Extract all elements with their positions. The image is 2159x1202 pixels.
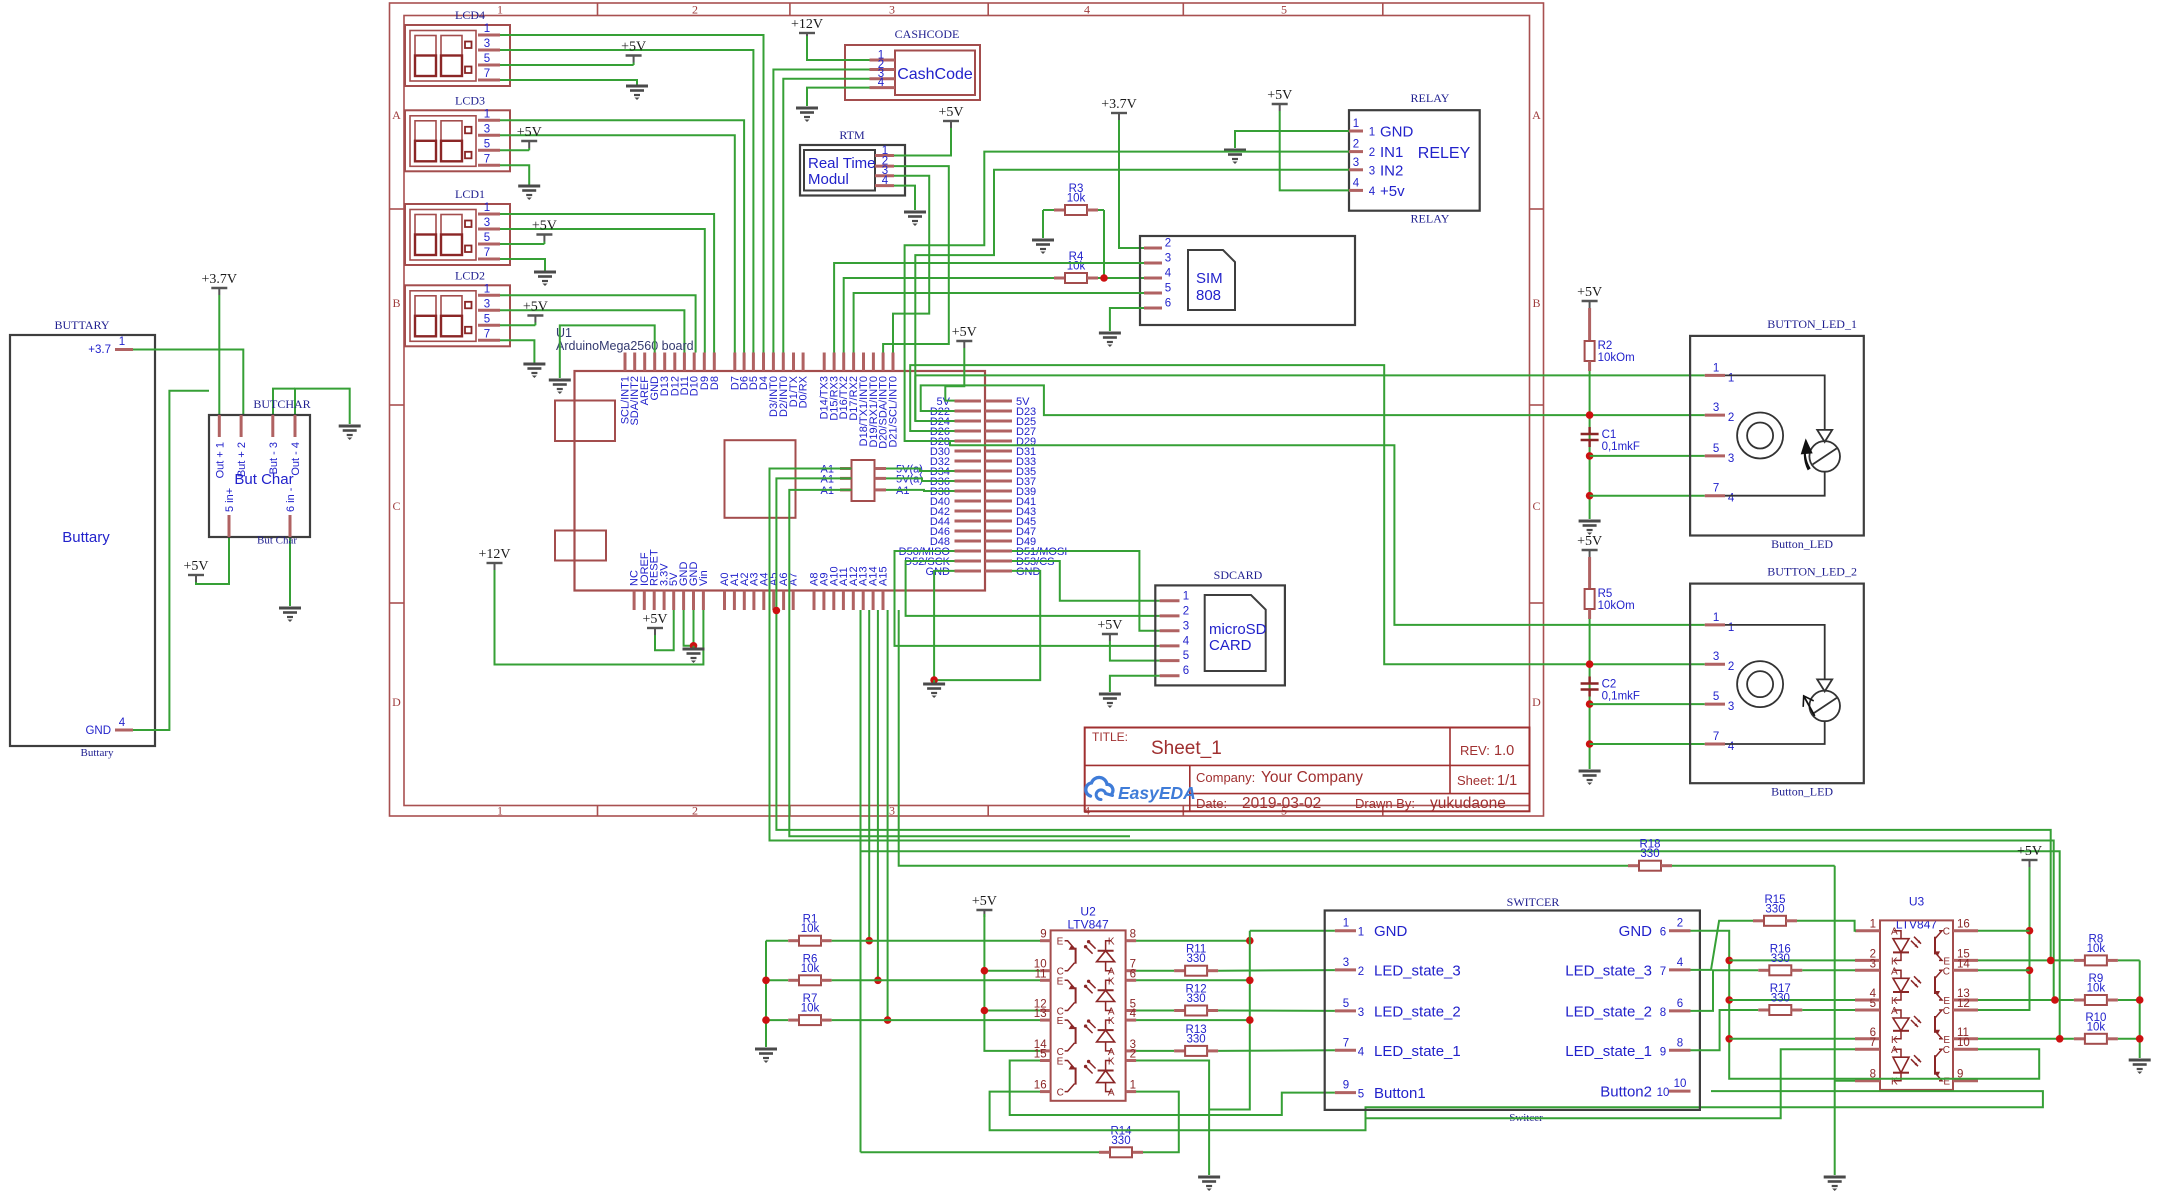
ground U1 bottom bbox=[683, 646, 705, 663]
power +5V LCD3 bbox=[517, 125, 542, 150]
junction R7 left bbox=[762, 1016, 770, 1024]
wire LCD3.5 to +5V bbox=[500, 149, 529, 151]
power +5V U2 bbox=[972, 894, 997, 917]
svg-text:8: 8 bbox=[1677, 1037, 1683, 1049]
svg-text:RTM: RTM bbox=[839, 128, 865, 142]
capacitor C2 0,1mkF bbox=[1581, 677, 1640, 703]
svg-text:IN2: IN2 bbox=[1380, 162, 1403, 179]
capacitor C1 0,1mkF bbox=[1581, 427, 1640, 453]
wire LCD3.1 to D6 bbox=[500, 120, 744, 352]
svg-text:1: 1 bbox=[1353, 118, 1359, 130]
svg-text:E: E bbox=[1057, 1016, 1064, 1027]
svg-text:+5V: +5V bbox=[532, 219, 557, 234]
wire R8/R9/R10 common bbox=[2139, 960, 2141, 1058]
wire U2 pin15 to SWITCER Button1 bbox=[1010, 1061, 1335, 1116]
wire SIM808.5 to D17 bbox=[854, 293, 1144, 353]
junction R6 left bbox=[762, 977, 770, 985]
svg-text:C1: C1 bbox=[1602, 429, 1617, 441]
svg-text:A: A bbox=[1891, 966, 1898, 977]
wire D28 to BUTTON_LED_2 pin1 bbox=[950, 441, 1705, 625]
junction GND pins bbox=[690, 642, 698, 650]
op-amp U3 LTV847 optocoupler bbox=[1855, 895, 1978, 1090]
svg-text:7: 7 bbox=[1870, 1037, 1876, 1049]
wire SDCARD.6 to ground bbox=[1110, 676, 1160, 692]
svg-text:10k: 10k bbox=[2087, 943, 2106, 955]
ground RTM bbox=[904, 212, 926, 226]
svg-text:0,1mkF: 0,1mkF bbox=[1602, 441, 1640, 453]
connector SWITCER bbox=[1325, 895, 1700, 1124]
junction A15/R6 bbox=[874, 977, 882, 985]
svg-text:3: 3 bbox=[1353, 157, 1359, 169]
svg-text:microSD: microSD bbox=[1209, 621, 1267, 638]
svg-text:Button1: Button1 bbox=[1374, 1085, 1426, 1102]
junction U2 pin4 bbox=[1246, 1016, 1254, 1024]
power +5V above RTM bbox=[938, 105, 963, 128]
wire CASHCODE.2 to D3/INT0 bbox=[773, 70, 869, 353]
svg-text:4: 4 bbox=[1728, 741, 1735, 753]
wire +5V branch pin16 bbox=[1978, 930, 2030, 932]
svg-text:1: 1 bbox=[1728, 372, 1734, 384]
svg-text:6: 6 bbox=[1660, 927, 1666, 939]
wire R4 left to D16/TX2 bbox=[844, 278, 1035, 353]
junction R7 row bbox=[884, 1016, 892, 1024]
connector LCD2 bbox=[405, 268, 510, 346]
wire D51/MOSI to SDCARD pin3 bbox=[1012, 551, 1160, 631]
svg-text:4: 4 bbox=[882, 175, 889, 187]
junction R3/R4/SIM.4 bbox=[1100, 274, 1108, 282]
svg-text:2: 2 bbox=[1358, 966, 1364, 978]
resistor R2 10kOm bbox=[1585, 308, 1635, 371]
wire RELAY.1 to ground bbox=[1235, 131, 1349, 148]
svg-text:2: 2 bbox=[1183, 605, 1189, 617]
wire +5V to BUTCHAR in+ bbox=[196, 537, 229, 584]
svg-text:5: 5 bbox=[1343, 998, 1349, 1010]
svg-text:3: 3 bbox=[484, 123, 490, 135]
svg-text:3: 3 bbox=[1713, 402, 1719, 414]
connector LCD3 bbox=[405, 93, 510, 171]
svg-text:+5V: +5V bbox=[952, 325, 977, 340]
svg-text:D: D bbox=[392, 695, 401, 709]
svg-text:12: 12 bbox=[1957, 998, 1970, 1010]
wire D21 net to R7 row bbox=[887, 610, 889, 1020]
svg-text:1: 1 bbox=[1728, 622, 1734, 634]
svg-text:4: 4 bbox=[1369, 186, 1376, 198]
svg-text:+3.7V: +3.7V bbox=[202, 272, 238, 287]
wire R1/R6/R7 common to ground bbox=[765, 941, 767, 1047]
svg-text:0,1mkF: 0,1mkF bbox=[1602, 691, 1640, 703]
ground R3 bbox=[1032, 240, 1054, 254]
svg-text:ArduinoMega2560 board: ArduinoMega2560 board bbox=[556, 339, 694, 353]
svg-text:1: 1 bbox=[497, 804, 503, 818]
ground R5/C2 bbox=[1579, 771, 1601, 785]
wire U2 pin6 bbox=[1136, 979, 1250, 981]
wire RELAY.3 IN2 to D24 bbox=[915, 170, 1349, 421]
connector LCD4 bbox=[405, 8, 510, 86]
connector SDCARD bbox=[1155, 568, 1285, 685]
svg-text:A: A bbox=[1108, 1088, 1115, 1099]
svg-text:2: 2 bbox=[1728, 661, 1734, 673]
svg-text:9: 9 bbox=[1660, 1046, 1666, 1058]
svg-text:GND: GND bbox=[1619, 923, 1653, 940]
svg-text:U2: U2 bbox=[1080, 905, 1096, 919]
svg-text:330: 330 bbox=[1111, 1135, 1130, 1147]
svg-text:Buttary: Buttary bbox=[62, 529, 110, 546]
junction A5 stub bbox=[773, 607, 781, 615]
svg-text:9: 9 bbox=[1343, 1080, 1349, 1092]
svg-text:+5V: +5V bbox=[642, 612, 667, 627]
connector BUTTON_LED_2 Button_LED bbox=[1690, 565, 1864, 799]
svg-text:10k: 10k bbox=[801, 923, 820, 935]
svg-text:IN1: IN1 bbox=[1380, 144, 1403, 161]
svg-text:Vin: Vin bbox=[698, 570, 710, 586]
resistor R7 10k bbox=[766, 993, 1040, 1025]
wire A15 net to R6 row bbox=[877, 610, 879, 980]
svg-text:D8: D8 bbox=[709, 376, 721, 390]
svg-text:4: 4 bbox=[1728, 493, 1735, 505]
resistor R6 10k bbox=[766, 953, 1040, 985]
svg-text:5: 5 bbox=[484, 138, 490, 150]
svg-text:4: 4 bbox=[1677, 957, 1684, 969]
svg-text:A15: A15 bbox=[878, 566, 890, 586]
svg-text:C: C bbox=[1532, 499, 1540, 513]
ground BUTCHAR right bbox=[339, 426, 361, 440]
resistor R3 10k bbox=[1043, 183, 1104, 215]
svg-text:CASHCODE: CASHCODE bbox=[895, 27, 960, 41]
ground LCD2 bbox=[523, 364, 545, 378]
wire net to R18 bbox=[899, 610, 1628, 866]
svg-text:16: 16 bbox=[1957, 919, 1970, 931]
svg-text:CARD: CARD bbox=[1209, 637, 1252, 654]
wire LCD2.5 to +5V bbox=[500, 324, 535, 326]
svg-text:LED_state_1: LED_state_1 bbox=[1565, 1043, 1652, 1060]
svg-text:3: 3 bbox=[1713, 651, 1719, 663]
resistor R10 10k bbox=[2074, 1012, 2140, 1044]
svg-text:10kOm: 10kOm bbox=[1598, 600, 1635, 612]
svg-text:11: 11 bbox=[1035, 968, 1047, 980]
ground below U3 pin8 bbox=[1824, 1177, 1846, 1191]
svg-text:6: 6 bbox=[1677, 998, 1683, 1010]
svg-text:LCD4: LCD4 bbox=[455, 8, 485, 22]
wire CASHCODE.4 to ground bbox=[807, 88, 870, 106]
svg-text:5: 5 bbox=[1713, 691, 1719, 703]
wire SDCARD +5V branch to pin5 bbox=[1110, 646, 1160, 661]
svg-text:Sheet_1: Sheet_1 bbox=[1151, 738, 1222, 759]
ground RELAY bbox=[1224, 150, 1246, 164]
power +3.7V left bbox=[202, 272, 238, 295]
svg-text:RELAY: RELAY bbox=[1411, 91, 1450, 105]
svg-text:GND: GND bbox=[926, 566, 951, 578]
svg-text:E: E bbox=[1057, 1057, 1064, 1068]
svg-text:REV:: REV: bbox=[1460, 743, 1490, 758]
svg-text:5: 5 bbox=[484, 53, 490, 65]
svg-text:10k: 10k bbox=[801, 963, 820, 975]
wire LCD4.1 to D4 bbox=[500, 35, 764, 353]
svg-text:LED_state_1: LED_state_1 bbox=[1374, 1043, 1461, 1060]
svg-text:E: E bbox=[1943, 1035, 1950, 1046]
power +5V BUTCHAR bbox=[183, 559, 208, 582]
junction R2/pin2 row bbox=[1586, 411, 1594, 419]
svg-text:E: E bbox=[1057, 976, 1064, 987]
wire SWITCER LED_state_1 to R17 bbox=[1691, 1010, 1759, 1050]
svg-text:3: 3 bbox=[1183, 620, 1189, 632]
svg-text:330: 330 bbox=[1187, 953, 1206, 965]
svg-text:SIM: SIM bbox=[1196, 270, 1223, 287]
svg-text:7: 7 bbox=[484, 328, 490, 340]
op-amp U2 LTV847 optocoupler bbox=[1034, 905, 1137, 1101]
connector CASHCODE bbox=[845, 27, 980, 100]
svg-text:Button_LED: Button_LED bbox=[1771, 785, 1833, 799]
wire U2 pin2 to ground bbox=[1136, 1061, 1209, 1176]
IC RTM Real Time Module bbox=[800, 128, 905, 196]
svg-text:+3.7V: +3.7V bbox=[1101, 97, 1137, 112]
wire RTM.2 to D20 bbox=[883, 166, 949, 352]
wire D52/SCK to SDCARD pin2 bbox=[906, 561, 1160, 616]
wire to U3 pin2 bbox=[1729, 959, 1855, 961]
power +5V RELAY bbox=[1267, 88, 1292, 111]
wire GND chain to SWITCER pin1 bbox=[1250, 930, 1335, 932]
svg-text:7: 7 bbox=[484, 68, 490, 80]
svg-text:1: 1 bbox=[1713, 362, 1719, 374]
svg-text:K: K bbox=[1108, 1057, 1115, 1068]
svg-text:LCD2: LCD2 bbox=[455, 268, 485, 282]
svg-text:D0/RX: D0/RX bbox=[798, 375, 810, 408]
svg-text:But - 3: But - 3 bbox=[268, 442, 280, 474]
svg-text:1/1: 1/1 bbox=[1497, 773, 1517, 789]
svg-text:+5V: +5V bbox=[1577, 285, 1602, 300]
svg-text:4: 4 bbox=[1130, 1008, 1137, 1020]
junction C2 bottom bbox=[1586, 700, 1594, 708]
ground BUTCHAR in- bbox=[279, 608, 301, 622]
junction U3 pin6 row bbox=[1725, 1035, 1733, 1043]
wire +5V branch pin14 bbox=[1978, 969, 2030, 971]
svg-text:5: 5 bbox=[1713, 443, 1719, 455]
wire BUTCHAR in- to ground bbox=[289, 537, 291, 606]
svg-text:CashCode: CashCode bbox=[897, 66, 973, 83]
junction ground net bbox=[930, 676, 938, 684]
svg-text:3: 3 bbox=[1358, 1007, 1364, 1019]
svg-text:Real Time: Real Time bbox=[808, 155, 876, 172]
svg-text:LCD3: LCD3 bbox=[455, 93, 485, 107]
svg-text:GND: GND bbox=[85, 725, 111, 737]
wire U3 pin15 to R8 bbox=[1978, 959, 2074, 961]
svg-text:10k: 10k bbox=[2087, 1021, 2106, 1033]
svg-text:1: 1 bbox=[484, 108, 490, 120]
svg-text:3: 3 bbox=[1343, 957, 1349, 969]
svg-text:10: 10 bbox=[1957, 1037, 1970, 1049]
svg-text:5: 5 bbox=[1870, 998, 1876, 1010]
wire to BUTTON_LED_2 pin4 bbox=[1590, 743, 1705, 745]
power +5V LCD1 bbox=[532, 219, 557, 245]
svg-text:yukudaone: yukudaone bbox=[1430, 795, 1506, 812]
svg-text:1: 1 bbox=[497, 3, 503, 17]
svg-text:But + 2: But + 2 bbox=[236, 442, 248, 477]
svg-text:Your Company: Your Company bbox=[1261, 769, 1363, 786]
wire GND chain vertical bbox=[1209, 931, 1250, 1110]
svg-text:+5v: +5v bbox=[1380, 183, 1405, 200]
junction R9 left bbox=[2051, 996, 2059, 1004]
wire +5V to 5V pin bbox=[655, 610, 674, 650]
ground CASHCODE bbox=[796, 108, 818, 122]
wire LCD3.7 to ground bbox=[500, 165, 529, 186]
wire R2 down bbox=[1589, 371, 1591, 519]
svg-text:10k: 10k bbox=[801, 1003, 820, 1015]
wire to U3 pin4 bbox=[1729, 999, 1855, 1001]
ground below U2 bbox=[1198, 1177, 1220, 1191]
svg-text:+5V: +5V bbox=[621, 40, 646, 55]
svg-text:+5V: +5V bbox=[972, 894, 997, 909]
junction U2 pin6 bbox=[1246, 977, 1254, 985]
svg-text:4: 4 bbox=[1353, 177, 1360, 189]
svg-text:6: 6 bbox=[1130, 968, 1136, 980]
svg-text:6 in -: 6 in - bbox=[285, 487, 297, 512]
svg-text:Company:: Company: bbox=[1196, 770, 1255, 785]
power +5V R2 bbox=[1577, 285, 1602, 308]
ground SDCARD bbox=[1099, 694, 1121, 708]
svg-text:9: 9 bbox=[1040, 929, 1046, 941]
svg-text:6: 6 bbox=[1183, 665, 1189, 677]
ground R1/R6/R7 bbox=[755, 1049, 777, 1063]
svg-text:GND: GND bbox=[1374, 923, 1408, 940]
wire BUTCHAR pin4 to ground bbox=[295, 389, 350, 424]
connector BUTCHAR (charger) bbox=[209, 397, 311, 547]
svg-text:RELEY: RELEY bbox=[1418, 145, 1471, 162]
resistor R11 330 bbox=[1136, 944, 1335, 976]
power +5V R5 bbox=[1577, 534, 1602, 557]
svg-text:C: C bbox=[1943, 1006, 1950, 1017]
svg-text:LED_state_3: LED_state_3 bbox=[1374, 962, 1461, 979]
svg-text:1.0: 1.0 bbox=[1494, 743, 1514, 759]
svg-text:BUTTON_LED_2: BUTTON_LED_2 bbox=[1767, 565, 1857, 579]
svg-text:10k: 10k bbox=[2087, 983, 2106, 995]
svg-text:3: 3 bbox=[1369, 165, 1375, 177]
svg-text:C: C bbox=[1943, 1045, 1950, 1056]
wire U1 GND pins to ground bbox=[684, 610, 694, 646]
svg-text:330: 330 bbox=[1187, 993, 1206, 1005]
svg-text:4: 4 bbox=[1183, 635, 1190, 647]
svg-text:C: C bbox=[1943, 927, 1950, 938]
power +3.7V above SIM808 bbox=[1101, 97, 1137, 120]
ground LCD3 bbox=[518, 186, 540, 200]
svg-text:TITLE:: TITLE: bbox=[1092, 730, 1128, 744]
svg-text:1: 1 bbox=[484, 202, 490, 214]
wire LCD2.3 to D11 bbox=[500, 310, 684, 352]
junction BL2 pin4 row bbox=[1586, 740, 1594, 748]
svg-text:330: 330 bbox=[1771, 953, 1790, 965]
svg-text:4: 4 bbox=[119, 717, 126, 729]
wire +3.7V to BUTCHAR pin1 bbox=[218, 295, 220, 415]
svg-text:B: B bbox=[1532, 296, 1540, 310]
svg-text:4: 4 bbox=[878, 77, 885, 89]
wire R5 down bbox=[1589, 619, 1591, 769]
svg-text:7: 7 bbox=[1713, 483, 1719, 495]
svg-text:5: 5 bbox=[484, 313, 490, 325]
ground right resistors bbox=[2129, 1060, 2151, 1074]
wire A1 third net bbox=[789, 490, 1130, 836]
wire +5V branch U2 pin12 bbox=[984, 1010, 1040, 1012]
resistor R9 10k bbox=[2074, 973, 2140, 1005]
svg-text:330: 330 bbox=[1771, 993, 1790, 1005]
svg-text:2: 2 bbox=[1353, 139, 1359, 151]
svg-text:2: 2 bbox=[1728, 412, 1734, 424]
wire RTM.3 to D21 bbox=[893, 176, 929, 353]
svg-text:+12V: +12V bbox=[791, 17, 823, 32]
junction +5V pin12 bbox=[981, 1007, 989, 1015]
svg-text:330: 330 bbox=[1765, 903, 1784, 915]
power +5V right of U3 bbox=[2017, 844, 2042, 867]
svg-text:+3.7: +3.7 bbox=[88, 344, 111, 356]
wire A1 block A1 to D38 bbox=[886, 490, 955, 491]
svg-text:1: 1 bbox=[1183, 590, 1189, 602]
resistor R17 330 bbox=[1758, 983, 1855, 1015]
wire U1 top GND to ground bbox=[560, 325, 655, 378]
svg-text:7: 7 bbox=[484, 247, 490, 259]
svg-text:1: 1 bbox=[1130, 1080, 1136, 1092]
svg-text:3: 3 bbox=[1728, 453, 1734, 465]
junction U3 pin14 bbox=[2026, 967, 2034, 975]
wire U2 pin16 to Button2 net bbox=[990, 1091, 2043, 1130]
U1 top pins bbox=[620, 353, 900, 449]
svg-text:2: 2 bbox=[692, 3, 698, 17]
svg-text:7: 7 bbox=[1713, 731, 1719, 743]
wire D22 to BUTTON_LED_1 pin2 bbox=[921, 385, 1705, 415]
svg-text:2: 2 bbox=[692, 804, 698, 818]
svg-text:1: 1 bbox=[484, 283, 490, 295]
svg-text:5: 5 bbox=[484, 232, 490, 244]
wire +5V to U2 pin14 bbox=[984, 914, 1040, 1051]
svg-text:+5V: +5V bbox=[523, 300, 548, 315]
wire RTM.1 to +5V bbox=[894, 128, 951, 156]
svg-text:+5V: +5V bbox=[938, 105, 963, 120]
wire LCD4.3 to D5 bbox=[500, 50, 753, 353]
svg-text:5: 5 bbox=[1183, 650, 1189, 662]
ground right of U1 bbox=[923, 680, 945, 698]
svg-text:+12V: +12V bbox=[478, 547, 510, 562]
svg-text:R5: R5 bbox=[1598, 588, 1613, 600]
wire to BUTTON_LED_2 pin3 bbox=[1590, 703, 1705, 705]
wire LCD1.3 to D9 bbox=[500, 229, 705, 353]
wire to BUTTON_LED_1 pin3 bbox=[1590, 455, 1705, 457]
resistor R15 330 bbox=[1753, 894, 1856, 931]
wire R18 to U3 pin8 / ground bbox=[1834, 866, 1836, 1175]
svg-text:15: 15 bbox=[1034, 1049, 1047, 1061]
wire +5V to RELAY.4 bbox=[1280, 111, 1349, 190]
svg-text:LED_state_3: LED_state_3 bbox=[1565, 962, 1652, 979]
svg-text:1: 1 bbox=[119, 336, 125, 348]
junction U3 pin2 row bbox=[1725, 957, 1733, 965]
wire to U3 pin6 bbox=[1729, 1038, 1855, 1040]
svg-text:B: B bbox=[392, 296, 400, 310]
svg-text:330: 330 bbox=[1187, 1033, 1206, 1045]
svg-text:8: 8 bbox=[1660, 1007, 1666, 1019]
svg-text:K: K bbox=[1108, 937, 1115, 948]
svg-text:Modul: Modul bbox=[808, 171, 849, 188]
svg-text:3: 3 bbox=[1870, 958, 1876, 970]
svg-text:K: K bbox=[1108, 1016, 1115, 1027]
power +12V bottom left bbox=[478, 547, 510, 570]
junction +5V pin10 bbox=[981, 967, 989, 975]
svg-text:3: 3 bbox=[889, 804, 895, 818]
resistor R8 10k bbox=[2074, 933, 2140, 965]
power +5V LCD4 bbox=[621, 40, 646, 66]
svg-text:1: 1 bbox=[1870, 919, 1876, 931]
svg-text:1: 1 bbox=[1713, 612, 1719, 624]
wire SWITCER GND to U3 cathodes bbox=[1691, 931, 2040, 1079]
svg-text:3: 3 bbox=[484, 38, 490, 50]
resistor R4 10k bbox=[1035, 251, 1160, 283]
svg-text:330: 330 bbox=[1640, 848, 1659, 860]
svg-text:EasyEDA: EasyEDA bbox=[1118, 783, 1196, 803]
junction R10 left bbox=[2056, 1035, 2064, 1043]
